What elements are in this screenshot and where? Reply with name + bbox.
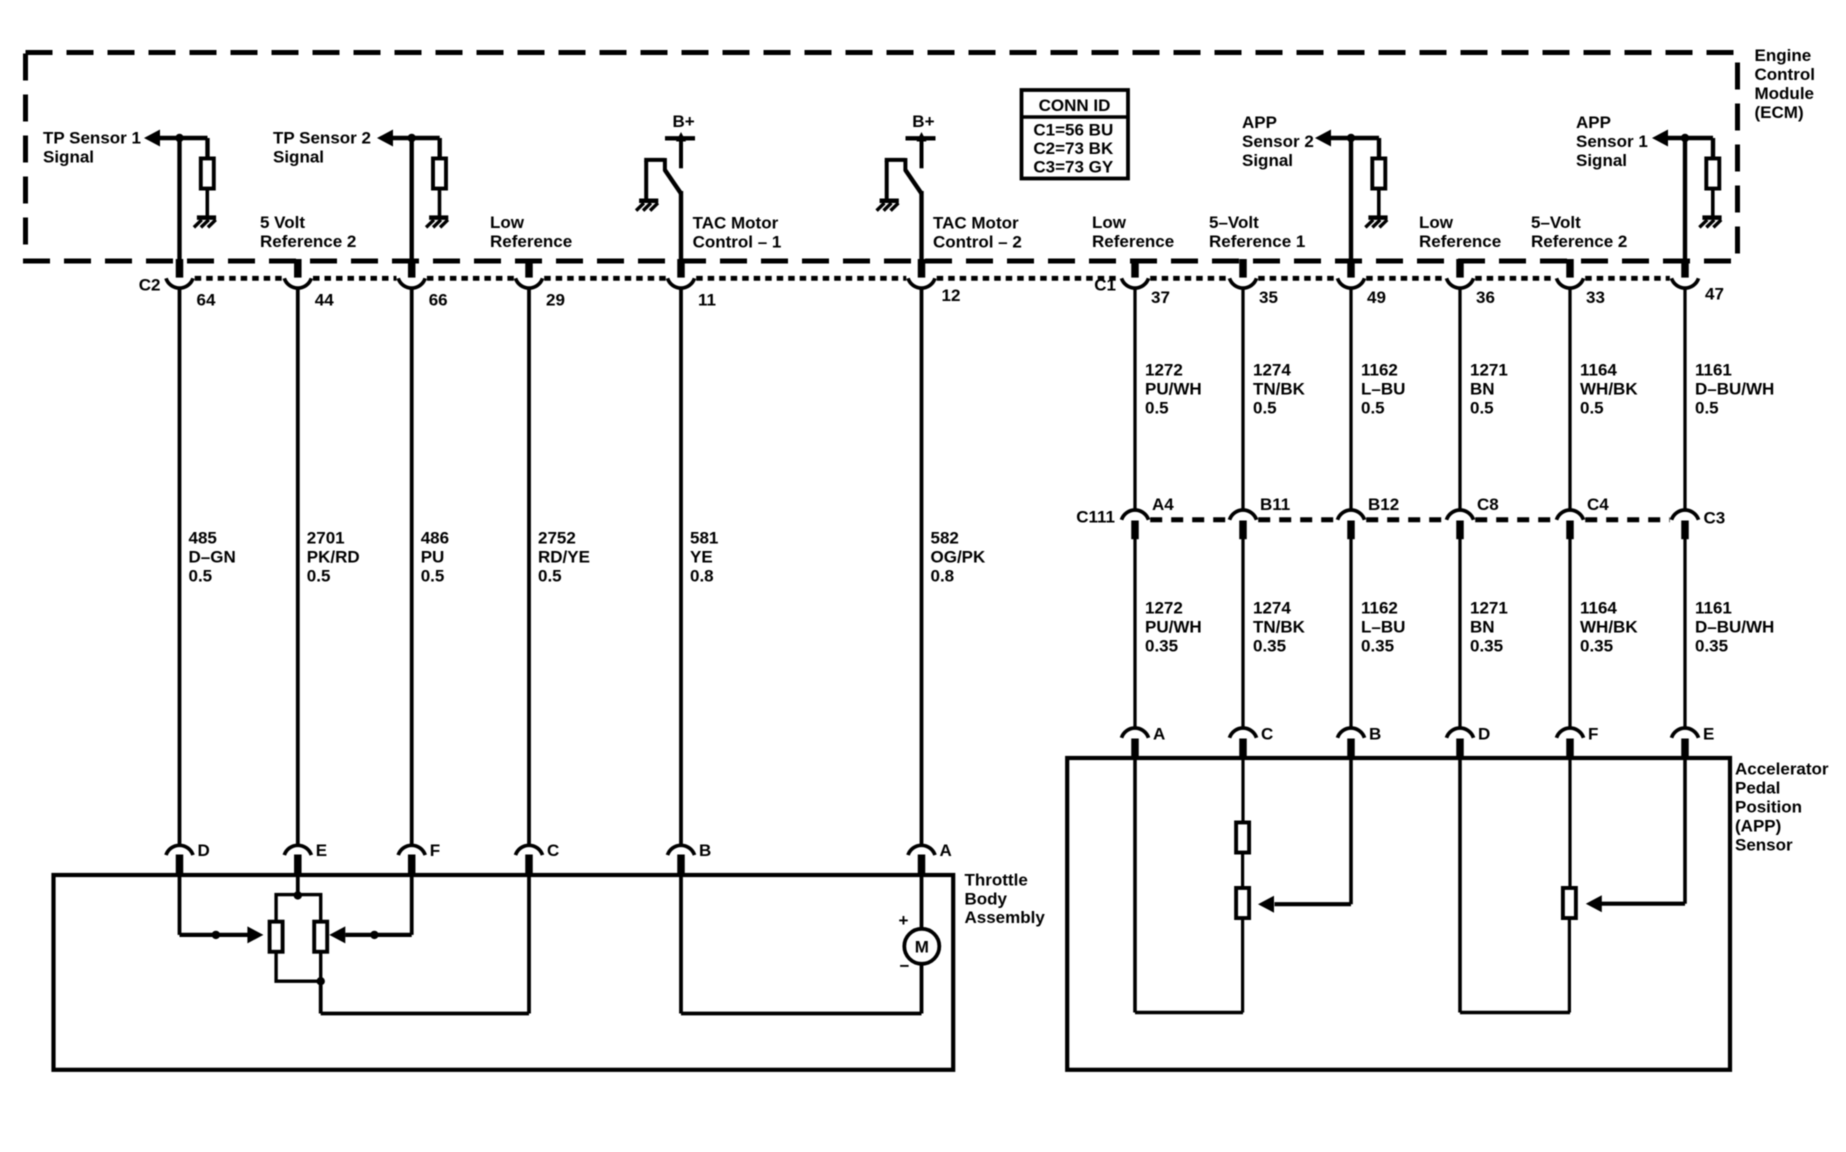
- svg-text:1272: 1272: [1145, 361, 1183, 380]
- svg-text:582: 582: [931, 529, 959, 548]
- svg-text:2752: 2752: [538, 529, 576, 548]
- svg-text:29: 29: [546, 291, 565, 310]
- svg-text:Signal: Signal: [273, 148, 324, 167]
- svg-text:1162: 1162: [1361, 599, 1398, 618]
- svg-text:Reference: Reference: [1419, 232, 1501, 251]
- svg-text:64: 64: [197, 291, 216, 310]
- svg-text:1161: 1161: [1695, 361, 1732, 380]
- svg-text:WH/BK: WH/BK: [1580, 618, 1638, 637]
- svg-text:PK/RD: PK/RD: [307, 548, 360, 567]
- svg-text:(ECM): (ECM): [1755, 103, 1804, 122]
- svg-text:44: 44: [315, 291, 334, 310]
- svg-text:1164: 1164: [1580, 361, 1617, 380]
- svg-text:B: B: [1369, 725, 1381, 744]
- svg-text:A: A: [1153, 725, 1165, 744]
- svg-text:0.5: 0.5: [1145, 399, 1169, 418]
- svg-text:0.5: 0.5: [1253, 399, 1277, 418]
- svg-text:B: B: [699, 841, 711, 860]
- svg-text:Reference 1: Reference 1: [1209, 232, 1305, 251]
- svg-text:C3=73 GY: C3=73 GY: [1033, 158, 1114, 177]
- svg-text:1271: 1271: [1470, 361, 1508, 380]
- svg-text:B11: B11: [1260, 495, 1290, 514]
- svg-text:Reference: Reference: [1092, 232, 1174, 251]
- svg-text:12: 12: [942, 286, 961, 305]
- svg-text:TAC Motor: TAC Motor: [933, 214, 1019, 233]
- svg-text:C2: C2: [139, 276, 161, 295]
- svg-text:APP: APP: [1242, 113, 1277, 132]
- svg-text:−: −: [900, 957, 910, 976]
- svg-text:49: 49: [1367, 288, 1386, 307]
- svg-text:35: 35: [1259, 288, 1278, 307]
- svg-text:CONN ID: CONN ID: [1039, 96, 1111, 115]
- svg-text:0.5: 0.5: [189, 567, 213, 586]
- svg-text:5 Volt: 5 Volt: [260, 213, 305, 232]
- svg-text:F: F: [1588, 725, 1598, 744]
- svg-text:D: D: [1478, 725, 1490, 744]
- svg-text:BN: BN: [1470, 618, 1495, 637]
- svg-text:E: E: [1703, 725, 1714, 744]
- svg-text:1271: 1271: [1470, 599, 1508, 618]
- svg-text:0.8: 0.8: [931, 567, 955, 586]
- svg-text:581: 581: [690, 529, 718, 548]
- svg-text:F: F: [430, 841, 440, 860]
- svg-text:Body: Body: [965, 890, 1008, 909]
- svg-text:Control: Control: [1755, 65, 1815, 84]
- svg-text:1272: 1272: [1145, 599, 1183, 618]
- svg-text:Throttle: Throttle: [965, 871, 1028, 890]
- svg-text:TN/BK: TN/BK: [1253, 380, 1306, 399]
- svg-text:TP Sensor 2: TP Sensor 2: [273, 129, 371, 148]
- svg-text:TAC Motor: TAC Motor: [693, 214, 779, 233]
- svg-text:0.5: 0.5: [1470, 399, 1494, 418]
- svg-text:PU: PU: [421, 548, 445, 567]
- svg-text:0.8: 0.8: [690, 567, 714, 586]
- svg-text:D–GN: D–GN: [189, 548, 236, 567]
- svg-text:485: 485: [189, 529, 217, 548]
- svg-text:0.5: 0.5: [421, 567, 445, 586]
- svg-text:Pedal: Pedal: [1735, 779, 1780, 798]
- svg-text:C: C: [547, 841, 559, 860]
- svg-text:486: 486: [421, 529, 449, 548]
- svg-text:Accelerator: Accelerator: [1735, 760, 1829, 779]
- svg-text:0.5: 0.5: [538, 567, 562, 586]
- svg-text:Signal: Signal: [1242, 151, 1293, 170]
- svg-text:0.35: 0.35: [1145, 637, 1178, 656]
- svg-text:0.5: 0.5: [1361, 399, 1385, 418]
- svg-text:C2=73 BK: C2=73 BK: [1033, 139, 1114, 158]
- svg-text:OG/PK: OG/PK: [931, 548, 987, 567]
- svg-text:C1: C1: [1094, 276, 1116, 295]
- svg-text:YE: YE: [690, 548, 713, 567]
- svg-text:L–BU: L–BU: [1361, 618, 1405, 637]
- svg-text:0.35: 0.35: [1580, 637, 1613, 656]
- svg-text:D: D: [198, 841, 210, 860]
- svg-text:0.35: 0.35: [1695, 637, 1728, 656]
- svg-text:1274: 1274: [1253, 361, 1291, 380]
- svg-text:37: 37: [1151, 288, 1170, 307]
- svg-text:TP Sensor 1: TP Sensor 1: [43, 129, 141, 148]
- svg-text:A: A: [940, 841, 952, 860]
- svg-text:Assembly: Assembly: [965, 908, 1046, 927]
- svg-text:E: E: [316, 841, 327, 860]
- svg-text:0.5: 0.5: [1580, 399, 1604, 418]
- svg-text:C: C: [1261, 725, 1273, 744]
- svg-text:0.35: 0.35: [1253, 637, 1286, 656]
- svg-text:Sensor 1: Sensor 1: [1576, 132, 1648, 151]
- svg-text:0.5: 0.5: [307, 567, 331, 586]
- svg-text:Module: Module: [1755, 84, 1815, 103]
- svg-text:Reference: Reference: [490, 232, 572, 251]
- svg-text:D–BU/WH: D–BU/WH: [1695, 618, 1774, 637]
- svg-text:36: 36: [1476, 288, 1495, 307]
- svg-text:5–Volt: 5–Volt: [1209, 213, 1259, 232]
- svg-text:+: +: [899, 911, 909, 930]
- svg-text:BN: BN: [1470, 380, 1495, 399]
- svg-text:5–Volt: 5–Volt: [1531, 213, 1581, 232]
- svg-text:Position: Position: [1735, 798, 1802, 817]
- svg-text:M: M: [915, 938, 929, 957]
- svg-text:1274: 1274: [1253, 599, 1291, 618]
- svg-text:WH/BK: WH/BK: [1580, 380, 1638, 399]
- svg-text:B+: B+: [912, 112, 934, 131]
- svg-text:C1=56 BU: C1=56 BU: [1033, 121, 1113, 140]
- svg-text:L–BU: L–BU: [1361, 380, 1405, 399]
- svg-text:Low: Low: [1092, 213, 1127, 232]
- svg-text:0.35: 0.35: [1361, 637, 1394, 656]
- svg-text:B12: B12: [1368, 495, 1399, 514]
- svg-text:Low: Low: [1419, 213, 1454, 232]
- svg-text:C4: C4: [1587, 495, 1609, 514]
- svg-text:66: 66: [429, 291, 448, 310]
- svg-text:47: 47: [1705, 285, 1724, 304]
- svg-text:PU/WH: PU/WH: [1145, 380, 1202, 399]
- svg-text:C111: C111: [1076, 508, 1115, 527]
- svg-text:11: 11: [698, 291, 716, 310]
- svg-text:Signal: Signal: [43, 148, 94, 167]
- svg-text:Control – 2: Control – 2: [933, 233, 1022, 252]
- svg-text:(APP): (APP): [1735, 817, 1781, 836]
- svg-text:APP: APP: [1576, 113, 1611, 132]
- svg-text:33: 33: [1586, 288, 1605, 307]
- svg-text:Engine: Engine: [1755, 46, 1812, 65]
- svg-text:0.35: 0.35: [1470, 637, 1503, 656]
- svg-text:TN/BK: TN/BK: [1253, 618, 1306, 637]
- svg-text:C8: C8: [1477, 495, 1499, 514]
- svg-text:Signal: Signal: [1576, 151, 1627, 170]
- svg-text:0.5: 0.5: [1695, 399, 1719, 418]
- svg-text:2701: 2701: [307, 529, 345, 548]
- svg-text:Reference 2: Reference 2: [1531, 232, 1627, 251]
- svg-text:PU/WH: PU/WH: [1145, 618, 1202, 637]
- svg-text:1162: 1162: [1361, 361, 1398, 380]
- svg-text:Sensor 2: Sensor 2: [1242, 132, 1314, 151]
- svg-text:1164: 1164: [1580, 599, 1617, 618]
- svg-text:Control – 1: Control – 1: [693, 233, 782, 252]
- svg-text:B+: B+: [673, 112, 695, 131]
- svg-text:Sensor: Sensor: [1735, 836, 1793, 855]
- svg-text:D–BU/WH: D–BU/WH: [1695, 380, 1774, 399]
- svg-text:RD/YE: RD/YE: [538, 548, 590, 567]
- svg-text:Reference 2: Reference 2: [260, 232, 356, 251]
- svg-text:A4: A4: [1152, 495, 1174, 514]
- svg-text:Low: Low: [490, 213, 525, 232]
- svg-text:C3: C3: [1704, 509, 1726, 528]
- svg-text:1161: 1161: [1695, 599, 1732, 618]
